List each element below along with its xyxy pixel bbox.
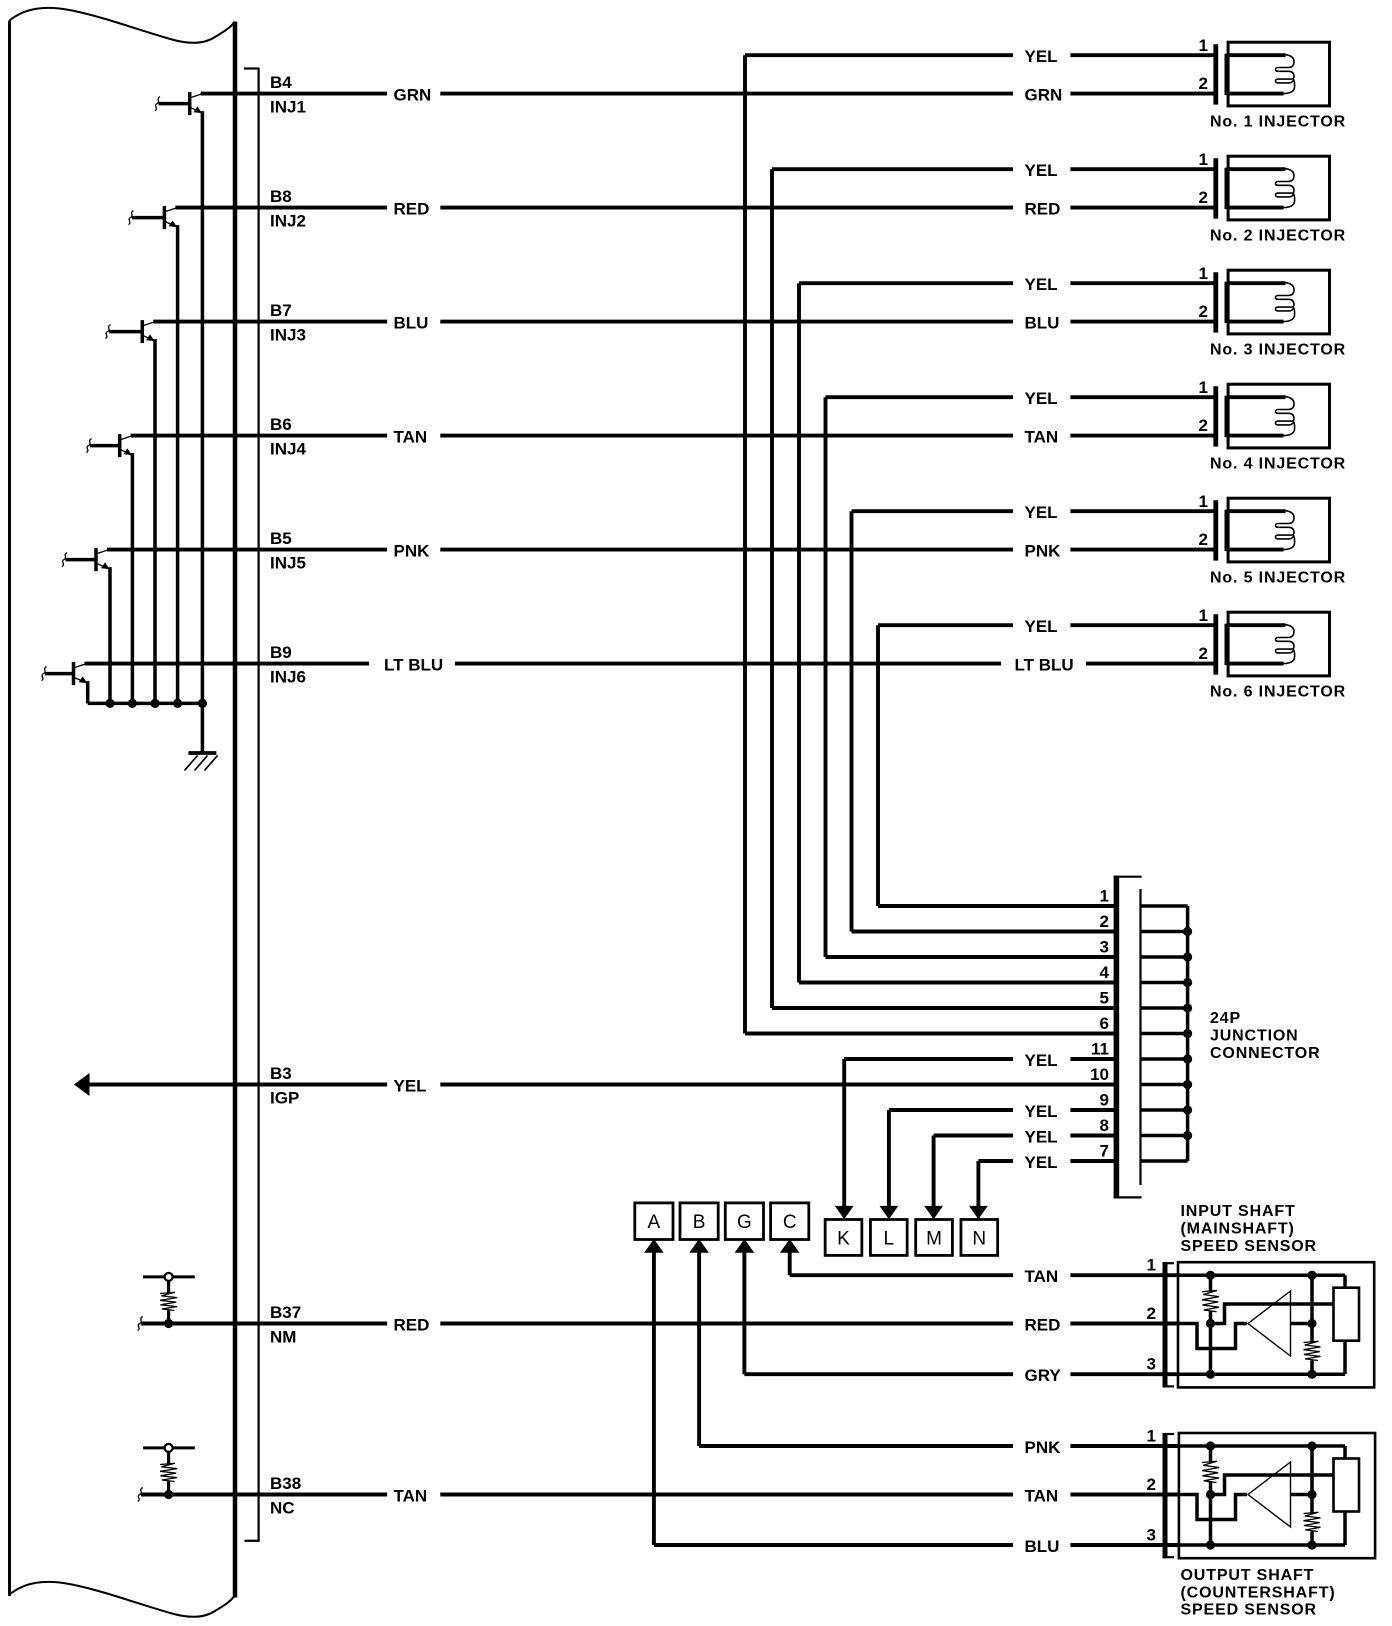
junction dot rail-1	[105, 699, 114, 708]
svg-text:B4: B4	[270, 73, 292, 92]
wire TAN segment (label to label)	[440, 434, 1013, 438]
svg-text:YEL: YEL	[1025, 1153, 1058, 1172]
svg-text:CONNECTOR: CONNECTOR	[1210, 1045, 1320, 1062]
ECM torn bottom edge	[10, 1582, 236, 1617]
wire B6 TAN segment (ECM to label)	[131, 434, 387, 438]
output speed sensor U2	[1179, 1433, 1375, 1558]
junction dot rail-4	[173, 699, 182, 708]
transistor Q5 (INJ5 driver)	[94, 548, 98, 571]
svg-text:8: 8	[1100, 1116, 1109, 1135]
wire terminal bar left	[143, 1446, 165, 1449]
connector bracket input speed sensor	[1163, 1262, 1168, 1387]
wire junction pin 8 jumper stub	[1141, 1134, 1188, 1138]
wire break mark B38	[138, 1488, 143, 1502]
wire YEL feed injector 1 (bus to label)	[745, 53, 1013, 57]
wire YEL feed injector 3 (label to connector)	[1070, 281, 1213, 285]
junction dot rail-5	[198, 699, 207, 708]
svg-text:2: 2	[1199, 644, 1208, 663]
wire YEL junction pin 9 (corner to label)	[889, 1108, 1013, 1112]
svg-text:K: K	[837, 1229, 850, 1250]
wire GRY input sensor pin 3 (corner to label)	[744, 1372, 1013, 1376]
wire B4 GRN segment (ECM to label)	[201, 92, 387, 96]
wire YEL drop to connector L	[887, 1110, 891, 1208]
svg-text:10: 10	[1090, 1065, 1109, 1084]
svg-text:YEL: YEL	[394, 1076, 427, 1095]
ECM/PCM body left edge	[8, 21, 11, 1597]
svg-text:11: 11	[1091, 1040, 1109, 1059]
svg-text:GRN: GRN	[394, 85, 432, 104]
wire resistor R1 to B37 wire	[167, 1311, 170, 1324]
wire junction pin 7 jumper stub	[1141, 1159, 1188, 1163]
svg-text:G: G	[737, 1212, 752, 1233]
wire YEL junction pin 9 (label to connector)	[1070, 1108, 1115, 1112]
wire TAN (label to output sensor pin 2)	[1070, 1493, 1179, 1497]
svg-text:5: 5	[1100, 989, 1109, 1008]
svg-text:4: 4	[1100, 963, 1110, 982]
injector L5 (No. 5 INJECTOR)	[1228, 498, 1329, 562]
wire PNK segment (label to injector 5 connector)	[1070, 548, 1213, 552]
svg-text:RED: RED	[1025, 1315, 1061, 1334]
svg-text:2: 2	[1199, 302, 1208, 321]
wire B9 LT BLU segment (ECM to label)	[85, 662, 370, 666]
arrow head (to power source)	[74, 1073, 90, 1096]
svg-text:INJ1: INJ1	[270, 98, 306, 117]
wire B5 PNK segment (ECM to label)	[107, 548, 387, 552]
connector injector 6	[1213, 614, 1218, 674]
svg-text:LT BLU: LT BLU	[1015, 655, 1074, 674]
ground	[188, 751, 216, 755]
wire GRY input sensor pin 3 (label to sensor)	[1070, 1372, 1178, 1376]
wire junction pin 11 jumper stub	[1141, 1057, 1188, 1061]
junction dot pin 8	[1183, 1131, 1192, 1140]
wire PNK output sensor pin 1 (label to sensor)	[1070, 1444, 1179, 1448]
svg-text:B9: B9	[270, 643, 292, 662]
svg-text:2: 2	[1100, 912, 1109, 931]
svg-text:YEL: YEL	[1025, 389, 1058, 408]
wire LT BLU segment (label to label)	[455, 662, 1001, 666]
svg-text:B8: B8	[270, 187, 292, 206]
svg-text:B38: B38	[270, 1474, 301, 1493]
arrow head into connector K	[835, 1206, 854, 1219]
svg-text:TAN: TAN	[394, 427, 428, 446]
svg-text:1: 1	[1199, 378, 1208, 397]
wire YEL feed injector 2 (bus to label)	[772, 167, 1013, 171]
junction dot pin 2	[1183, 927, 1192, 936]
svg-text:YEL: YEL	[1025, 275, 1058, 294]
svg-text:PNK: PNK	[1025, 1438, 1062, 1457]
connector G	[725, 1203, 763, 1240]
junction dot pin 9	[1183, 1105, 1192, 1114]
wire YEL feed injector 6 (bus to label)	[878, 623, 1013, 627]
wire connector G drop to row	[742, 1251, 746, 1374]
wire RED (label to input sensor pin 2)	[1070, 1322, 1178, 1326]
svg-text:No. 2 INJECTOR: No. 2 INJECTOR	[1210, 228, 1346, 245]
svg-text:1: 1	[1147, 1427, 1156, 1446]
wire Q4 emitter to common rail	[131, 453, 135, 703]
injector L3 (No. 3 INJECTOR)	[1228, 270, 1329, 334]
svg-text:YEL: YEL	[1025, 1102, 1058, 1121]
wire PNK output sensor pin 1 (corner to label)	[699, 1444, 1013, 1448]
injector L2 (No. 2 INJECTOR)	[1228, 156, 1329, 220]
svg-text:2: 2	[1199, 416, 1208, 435]
arrow head into connector L	[880, 1206, 899, 1219]
wire junction pin 1 jumper stub	[1141, 904, 1188, 908]
svg-text:TAN: TAN	[1025, 1267, 1059, 1286]
svg-text:3: 3	[1100, 938, 1109, 957]
svg-text:N: N	[972, 1229, 986, 1250]
wire Q6 emitter down	[86, 681, 90, 703]
svg-text:INJ2: INJ2	[270, 212, 306, 231]
transistor Q2 (INJ2 driver)	[163, 206, 167, 229]
wire BLU segment (label to label)	[440, 320, 1013, 324]
svg-text:9: 9	[1100, 1091, 1109, 1110]
svg-text:SPEED SENSOR: SPEED SENSOR	[1181, 1602, 1317, 1619]
connector A	[635, 1203, 673, 1240]
op-amp U2	[1206, 1441, 1215, 1450]
svg-text:INJ4: INJ4	[270, 440, 306, 459]
svg-text:No. 1 INJECTOR: No. 1 INJECTOR	[1210, 114, 1346, 131]
wire RED segment (label to label)	[440, 206, 1013, 210]
connector injector 4	[1213, 386, 1218, 446]
svg-text:6: 6	[1100, 1014, 1109, 1033]
svg-text:TAN: TAN	[1025, 427, 1059, 446]
connector C	[771, 1203, 809, 1240]
bracket bottom foot	[245, 1540, 259, 1542]
wire junction pin 5 lead	[772, 1006, 1115, 1010]
wire terminal bar right	[173, 1446, 195, 1449]
junction dot B37	[164, 1319, 173, 1328]
wire emitter common rail	[88, 702, 203, 706]
wire YEL feed injector 6 (label to connector)	[1070, 623, 1213, 627]
wire junction pin 9 jumper stub	[1141, 1108, 1188, 1112]
wire YEL drop to connector K	[842, 1059, 846, 1208]
wire terminal bar left	[143, 1275, 165, 1278]
connector N	[961, 1220, 998, 1256]
junction dot rail-3	[150, 699, 159, 708]
svg-text:OUTPUT SHAFT: OUTPUT SHAFT	[1181, 1567, 1315, 1584]
svg-text:INJ6: INJ6	[270, 668, 306, 687]
wire junction pin 2 jumper stub	[1141, 930, 1188, 934]
wire YEL bus vertical injector 2 to junction pin 5	[770, 169, 774, 1008]
wire YEL junction pin 7 (label to connector)	[1070, 1159, 1115, 1163]
wire Q1 emitter to common rail	[201, 111, 205, 703]
svg-text:1: 1	[1199, 264, 1208, 283]
ECM torn top edge	[10, 8, 236, 43]
connector M	[916, 1220, 953, 1256]
junction dot pin 5	[1183, 1003, 1192, 1012]
svg-text:3: 3	[1147, 1355, 1156, 1374]
wire YEL feed injector 4 (label to connector)	[1070, 395, 1213, 399]
24P junction connector body	[1114, 876, 1120, 1199]
transistor Q1 (INJ1 driver)	[188, 92, 192, 115]
svg-text:7: 7	[1100, 1142, 1109, 1161]
svg-text:BLU: BLU	[1025, 313, 1060, 332]
svg-text:1: 1	[1199, 36, 1208, 55]
svg-text:1: 1	[1199, 606, 1208, 625]
wire junction pin 1 lead	[878, 904, 1115, 908]
svg-text:YEL: YEL	[1025, 617, 1058, 636]
svg-text:L: L	[884, 1229, 895, 1250]
svg-text:NM: NM	[270, 1328, 296, 1347]
svg-text:GRY: GRY	[1025, 1366, 1062, 1385]
wire TAN input sensor pin 1 (corner to label)	[790, 1273, 1013, 1277]
svg-text:(COUNTERSHAFT): (COUNTERSHAFT)	[1181, 1584, 1336, 1601]
svg-text:(MAINSHAFT): (MAINSHAFT)	[1181, 1221, 1295, 1238]
connector injector 3	[1213, 272, 1218, 332]
svg-text:INPUT SHAFT: INPUT SHAFT	[1181, 1203, 1296, 1220]
wire GRN segment (label to label)	[440, 92, 1013, 96]
svg-text:1: 1	[1147, 1256, 1156, 1275]
svg-text:PNK: PNK	[394, 541, 431, 560]
connector injector 2	[1213, 158, 1218, 218]
wire RED (mid segment)	[440, 1322, 1013, 1326]
wire BLU output sensor pin 3 (corner to label)	[654, 1543, 1013, 1547]
transistor Q3 (INJ3 driver)	[141, 320, 145, 343]
arrow head into connector N	[969, 1206, 988, 1219]
wire junction pin 5 jumper stub	[1141, 1006, 1188, 1010]
svg-text:1: 1	[1199, 150, 1208, 169]
svg-text:RED: RED	[394, 199, 430, 218]
connector bracket output speed sensor	[1163, 1433, 1168, 1558]
wire junction pin 10 jumper stub	[1141, 1083, 1188, 1087]
svg-text:RED: RED	[1025, 199, 1061, 218]
svg-text:No. 5 INJECTOR: No. 5 INJECTOR	[1210, 570, 1346, 587]
arrow head into connector G	[735, 1239, 755, 1253]
wire YEL drop to connector N	[976, 1161, 980, 1208]
wire junction jumper bus	[1186, 906, 1190, 1161]
wire junction pin 4 jumper stub	[1141, 981, 1188, 985]
wire junction pin 2 lead	[852, 930, 1116, 934]
svg-text:YEL: YEL	[1025, 503, 1058, 522]
wire YEL bus vertical injector 4 to junction pin 3	[824, 397, 828, 957]
connector injector 1	[1213, 44, 1218, 104]
wire B37 RED (ECM to label)	[141, 1322, 387, 1326]
svg-text:1: 1	[1199, 492, 1208, 511]
svg-text:2: 2	[1199, 530, 1208, 549]
wire TAN input sensor pin 1 (label to sensor)	[1070, 1273, 1178, 1277]
svg-text:INJ5: INJ5	[270, 554, 306, 573]
svg-text:TAN: TAN	[1025, 1486, 1059, 1505]
wire YEL bus vertical injector 1 to junction pin 6	[743, 55, 747, 1033]
svg-text:B37: B37	[270, 1303, 301, 1322]
wire Q2 emitter to common rail	[176, 225, 180, 703]
arrow head into connector M	[924, 1206, 943, 1219]
wire YEL bus vertical injector 6 to junction pin 1	[876, 625, 880, 906]
wire Q5 emitter to common rail	[108, 567, 112, 703]
wire YEL feed injector 5 (bus to label)	[852, 509, 1014, 513]
wire YEL feed injector 2 (label to connector)	[1070, 167, 1213, 171]
wire connector A drop to row	[652, 1251, 656, 1545]
wire connector C drop to row	[788, 1251, 792, 1275]
svg-text:3: 3	[1147, 1526, 1156, 1545]
wire break mark B37	[138, 1317, 143, 1331]
svg-text:B6: B6	[270, 415, 292, 434]
wire YEL feed injector 3 (bus to label)	[799, 281, 1013, 285]
svg-text:2: 2	[1199, 74, 1208, 93]
junction dot pin 3	[1183, 952, 1192, 961]
wire GRN segment (label to injector 1 connector)	[1070, 92, 1213, 96]
wire TAN segment (label to injector 4 connector)	[1070, 434, 1213, 438]
wire junction pin 6 lead	[745, 1032, 1115, 1036]
svg-text:IGP: IGP	[270, 1089, 299, 1108]
svg-text:NC: NC	[270, 1499, 295, 1518]
connector B	[680, 1203, 718, 1240]
wire junction pin 3 jumper stub	[1141, 955, 1188, 959]
svg-text:2: 2	[1199, 188, 1208, 207]
svg-text:BLU: BLU	[394, 313, 429, 332]
svg-text:GRN: GRN	[1025, 85, 1063, 104]
svg-text:M: M	[926, 1229, 942, 1250]
wire YEL feed injector 4 (bus to label)	[826, 395, 1014, 399]
injector L4 (No. 4 INJECTOR)	[1228, 384, 1329, 448]
wire YEL feed injector 1 (label to connector)	[1070, 53, 1213, 57]
svg-text:No. 3 INJECTOR: No. 3 INJECTOR	[1210, 342, 1346, 359]
resistor R1	[160, 1292, 177, 1310]
wire B38 TAN (ECM to label)	[141, 1493, 387, 1497]
svg-text:2: 2	[1147, 1304, 1156, 1323]
injector L6 (No. 6 INJECTOR)	[1228, 612, 1329, 676]
resistor R2	[160, 1463, 177, 1481]
junction dot pin 10	[1183, 1080, 1192, 1089]
wire TAN (mid segment)	[440, 1493, 1013, 1497]
svg-text:LT BLU: LT BLU	[384, 655, 443, 674]
junction dot B38	[164, 1490, 173, 1499]
wire Q3 emitter to common rail	[153, 339, 157, 703]
op-amp U1	[1206, 1271, 1215, 1280]
svg-text:INJ3: INJ3	[270, 326, 306, 345]
wire YEL junction pin 8 (corner to label)	[934, 1134, 1013, 1138]
svg-text:RED: RED	[394, 1315, 430, 1334]
connector K	[825, 1220, 862, 1256]
wire YEL junction pin 11 (corner to label)	[844, 1057, 1013, 1061]
svg-text:No. 6 INJECTOR: No. 6 INJECTOR	[1210, 684, 1346, 701]
wire YEL junction pin 8 (label to connector)	[1070, 1134, 1115, 1138]
svg-text:BLU: BLU	[1025, 1537, 1060, 1556]
transistor Q6 (INJ6 driver)	[72, 662, 76, 685]
transistor Q4 (INJ4 driver)	[118, 434, 122, 457]
wire YEL drop to connector M	[932, 1136, 936, 1208]
wire rail to ground	[201, 703, 205, 753]
junction dot pin 4	[1183, 978, 1192, 987]
bracket top foot	[244, 67, 259, 69]
svg-text:24P: 24P	[1210, 1010, 1241, 1027]
wire YEL bus vertical injector 5 to junction pin 2	[850, 511, 854, 931]
arrow head into connector B	[689, 1239, 709, 1253]
wire resistor R2 to B38 wire	[167, 1482, 170, 1495]
wire PNK segment (label to label)	[440, 548, 1013, 552]
svg-text:TAN: TAN	[394, 1486, 428, 1505]
svg-text:B: B	[693, 1212, 706, 1233]
svg-text:YEL: YEL	[1025, 1051, 1058, 1070]
wire YEL junction pin 11 (label to connector)	[1070, 1057, 1115, 1061]
wire LT BLU segment (label to injector 6 connector)	[1086, 662, 1214, 666]
wire BLU output sensor pin 3 (label to sensor)	[1070, 1543, 1179, 1547]
arrow head into connector C	[780, 1239, 800, 1253]
wire terminal bar right	[173, 1275, 195, 1278]
input speed sensor U1	[1178, 1262, 1374, 1387]
svg-text:C: C	[783, 1212, 797, 1233]
junction dot pin 11	[1183, 1054, 1192, 1063]
ECM right edge (connector face)	[233, 22, 238, 1598]
wire YEL bus vertical injector 3 to junction pin 4	[797, 283, 801, 982]
wire YEL junction pin 7 (corner to label)	[978, 1159, 1013, 1163]
wire circle to resistor R2	[167, 1452, 170, 1464]
svg-text:YEL: YEL	[1025, 161, 1058, 180]
connector L	[870, 1220, 907, 1256]
svg-text:2: 2	[1147, 1475, 1156, 1494]
svg-text:JUNCTION: JUNCTION	[1210, 1028, 1299, 1045]
junction dot pin 6	[1183, 1029, 1192, 1038]
svg-text:1: 1	[1100, 887, 1109, 906]
svg-text:B5: B5	[270, 529, 292, 548]
svg-text:B7: B7	[270, 301, 292, 320]
wire B7 BLU segment (ECM to label)	[153, 320, 387, 324]
junction dot rail-2	[128, 699, 137, 708]
ECM connector bracket	[258, 68, 260, 1542]
arrow head into connector A	[644, 1239, 664, 1253]
wire circle to resistor R1	[167, 1281, 170, 1293]
connector injector 5	[1213, 500, 1218, 560]
wire RED segment (label to injector 2 connector)	[1070, 206, 1213, 210]
svg-text:No. 4 INJECTOR: No. 4 INJECTOR	[1210, 456, 1346, 473]
wire YEL feed injector 5 (label to connector)	[1070, 509, 1213, 513]
svg-text:SPEED SENSOR: SPEED SENSOR	[1181, 1238, 1317, 1255]
wire junction pin 3 lead	[826, 955, 1116, 959]
svg-text:B3: B3	[270, 1064, 292, 1083]
wire junction pin 6 jumper stub	[1141, 1032, 1188, 1036]
wire BLU segment (label to injector 3 connector)	[1070, 320, 1213, 324]
wire junction pin 4 lead	[799, 981, 1115, 985]
wire B8 RED segment (ECM to label)	[175, 206, 387, 210]
wire connector B drop to row	[697, 1251, 701, 1446]
injector L1 (No. 1 INJECTOR)	[1228, 42, 1329, 106]
svg-text:PNK: PNK	[1025, 541, 1062, 560]
svg-text:YEL: YEL	[1025, 1127, 1058, 1146]
svg-text:YEL: YEL	[1025, 47, 1058, 66]
svg-text:A: A	[648, 1212, 661, 1233]
